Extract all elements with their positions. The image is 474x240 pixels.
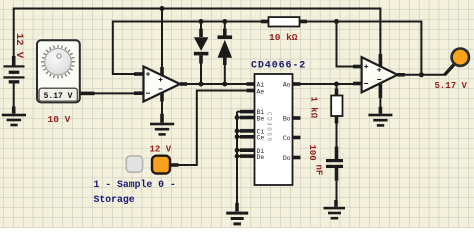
resistor 10 kΩ (261, 17, 307, 26)
junction diode-left top (199, 19, 204, 24)
svg-text:Bo: Bo (283, 116, 291, 123)
wire right op-amp V- to ground (379, 96, 381, 107)
junction bus Ce (235, 134, 240, 139)
junction output/diode-right (222, 82, 227, 87)
junction hold node (334, 82, 339, 87)
junction bus De (235, 154, 240, 159)
svg-text:1 kΩ: 1 kΩ (309, 97, 319, 119)
IC pin Do (283, 155, 301, 162)
svg-text:Ao: Ao (283, 82, 291, 89)
IC pin Bi (240, 109, 264, 116)
IC pin Ai (247, 82, 265, 89)
junction at top rail (160, 6, 165, 11)
wire Ae control from 12V logic state (178, 91, 247, 166)
wire IC Ao to right op-amp + input (300, 83, 354, 85)
adjustable source knob with 5.17 V display (37, 40, 135, 102)
svg-text:Ae: Ae (257, 88, 265, 95)
IC pin De (240, 154, 264, 161)
svg-text:De: De (257, 154, 265, 161)
junction output/diode-left (199, 82, 204, 87)
IC pin Ce (240, 135, 264, 142)
wire branch to right op-amp inverting input (337, 22, 355, 67)
IC pin Ao (283, 82, 301, 89)
IC CD4066 body (255, 74, 293, 185)
IC pin Ae (247, 88, 265, 95)
svg-text:100: 100 (307, 145, 317, 161)
IC pin Bo (283, 116, 301, 123)
voltage probe pin (445, 64, 455, 75)
diode D-right (cathode top, anode bottom) (218, 22, 233, 85)
IC pin Co (283, 135, 301, 142)
wire top +12V rail from battery to right op-amp V+ (14, 9, 381, 67)
svg-text:10 kΩ: 10 kΩ (269, 32, 298, 43)
svg-text:Storage: Storage (94, 194, 135, 205)
junction diode-right top (222, 19, 227, 24)
svg-text:12 V: 12 V (150, 145, 172, 155)
wire feedback line left section to left op-amp inverting input (113, 22, 262, 75)
svg-text:Be: Be (257, 115, 265, 122)
IC pin Ci (240, 129, 264, 136)
svg-text:1 - Sample 0 -: 1 - Sample 0 - (94, 179, 176, 190)
ground (capacitor) (324, 200, 346, 220)
wire ground bus for unused switch pins (236, 112, 238, 203)
svg-text:nF: nF (314, 165, 324, 176)
wire left op-amp output to IC pin Ai (186, 83, 247, 85)
IC pin Be (240, 115, 264, 122)
svg-text:Ce: Ce (257, 135, 265, 142)
svg-text:Co: Co (283, 135, 291, 142)
svg-text:10 V: 10 V (48, 114, 71, 125)
op-amp U2 (right) (353, 54, 405, 98)
svg-text:5.17 V: 5.17 V (44, 92, 73, 101)
junction output/feedback (419, 72, 424, 77)
junction feedback/branch (334, 19, 339, 24)
svg-text:12 V: 12 V (13, 33, 25, 59)
svg-text:CD4066: CD4066 (266, 112, 273, 143)
logic state button grey (126, 156, 142, 172)
wire feedback line right section down to output node (307, 22, 422, 75)
ground (bus) (226, 203, 248, 226)
svg-text:Do: Do (283, 155, 291, 162)
resistor 1 kΩ (331, 84, 342, 147)
IC pin Di (240, 148, 264, 155)
junction bus Di (235, 148, 240, 153)
battery 12V (4, 56, 25, 107)
svg-text:CD4066-2: CD4066-2 (251, 61, 306, 72)
wire bus links (237, 112, 241, 157)
wire right op-amp output to probe (404, 74, 445, 76)
wire V+ drop to left op-amp (161, 9, 163, 70)
ground (left op-amp) (150, 114, 174, 136)
op-amp U1 (left) (134, 67, 187, 102)
ground (right op-amp) (368, 107, 392, 127)
capacitor 100 nF (326, 147, 343, 201)
junction bus Be (235, 115, 240, 120)
logic state button 12V orange (152, 156, 179, 174)
voltage probe (452, 49, 469, 66)
ground (battery) (2, 107, 26, 127)
junction bus Ci (235, 129, 240, 134)
svg-text:5.17 V: 5.17 V (435, 81, 468, 91)
diode D-left (anode top, cathode bottom) (194, 22, 209, 85)
wire left op-amp V- to ground (161, 101, 163, 114)
